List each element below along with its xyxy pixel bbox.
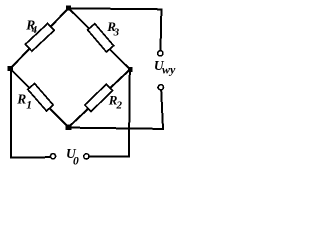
wire: upper-left arm (node L to node T) <box>10 8 68 69</box>
wire: upper-right arm (node T to node R) <box>69 8 131 69</box>
label Uwy <box>154 58 176 77</box>
wire: lower-left arm (node L to node B) <box>10 69 68 128</box>
resistor R4 body <box>25 23 54 51</box>
resistor R2 body <box>85 84 113 111</box>
terminal circle Uwy bottom <box>158 85 163 90</box>
svg-text:1: 1 <box>26 100 32 112</box>
node B junction dot <box>66 124 72 130</box>
label R1 <box>16 91 32 111</box>
svg-text:3: 3 <box>113 27 120 39</box>
label U0 <box>66 146 79 167</box>
svg-text:0: 0 <box>73 156 79 168</box>
svg-text:wy: wy <box>162 62 176 76</box>
scan nub left of Uwy bottom terminal <box>157 87 159 89</box>
resistor R1 body <box>28 83 53 110</box>
terminal circle U0 left <box>50 154 55 159</box>
label R3 <box>106 19 119 39</box>
terminal circle Uwy top <box>158 51 163 56</box>
terminal circle U0 right <box>84 154 89 159</box>
wire: bottom node right then up to Uwy bottom terminal <box>69 90 164 129</box>
node R junction dot <box>128 67 133 72</box>
label R2 <box>108 92 123 111</box>
wire: U0 right terminal right then up to right node <box>89 71 129 157</box>
wire: left node down and right to U0 left terminal <box>11 69 50 158</box>
resistor R3 body <box>88 24 114 52</box>
node L junction dot <box>8 66 13 71</box>
svg-text:R: R <box>16 91 26 106</box>
wire: lower-right arm (node B to node R) <box>69 69 131 127</box>
wire: top node to top-right corner and down to Uwy top terminal <box>69 8 162 50</box>
svg-text:4: 4 <box>31 25 37 36</box>
svg-text:2: 2 <box>116 99 123 111</box>
label R4 <box>25 18 37 36</box>
node T junction dot <box>66 6 71 11</box>
